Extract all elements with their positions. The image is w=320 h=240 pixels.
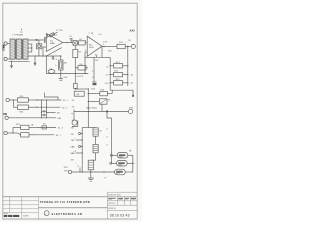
branch stubs with labels [79,133,81,135]
wire [7,43,10,45]
op-amp U1 inverting input wire [45,39,47,41]
node junction [36,39,38,41]
right table [107,192,137,219]
capacitor C6 [92,81,97,83]
divider left bus [109,57,111,90]
wire right vertical [130,155,133,172]
ladder verticals [40,100,42,118]
resistor group B: terminal [4,131,7,134]
divider line [38,207,107,209]
relay K2 [93,144,98,152]
op-amp U1 non-inverting input wire [43,46,46,48]
resistor R16 [88,93,100,95]
resistor R10 vertical [74,74,76,84]
title block top line [3,196,108,198]
terminal out mid [128,109,132,113]
wire L bottom of divider [110,90,133,96]
op-amp U2 lower input wire [85,51,87,53]
regulator VR3 [115,169,126,175]
resistor R19 [17,98,28,102]
capacitor C4 [48,70,55,74]
op-amp U2 output [102,46,117,48]
tick on rail [96,56,98,58]
bus line S4 [37,134,54,136]
resistor R13 [114,64,123,68]
border frame [3,3,137,219]
wire vertical node A [45,56,47,74]
rail mid [46,73,88,75]
bus jog [82,127,88,129]
resistor R21 [12,127,14,133]
op-amp U1 [46,34,63,52]
op-amp U1 output wire [63,42,73,44]
regulator VR2 [117,160,128,166]
wire L down [107,112,112,164]
zener box D3 [59,60,63,70]
op-amp U2 [87,36,102,56]
revision table [3,197,39,219]
wire top rail from transformer [28,39,44,41]
feedback diagonal lower [46,48,62,56]
capacitor C1 [44,37,46,43]
logo [44,211,49,216]
paper grain [0,0,1,1]
resistor R14 [114,72,123,76]
tap rail to node A [28,55,61,57]
terminal input 2 [4,57,7,60]
step wire top [44,93,58,100]
relay K3 [88,160,93,170]
capacitor C8 to ground [60,74,62,79]
capacitor ticks C14 [41,114,43,116]
feedback wire U2 [101,46,103,57]
resistor R20 [12,100,14,107]
bus vertical lower [81,128,83,172]
transformer TR windings [10,39,28,59]
terminal bottom left [68,170,71,173]
resistor R9 vertical [73,49,78,57]
trimmer box R2 [36,44,41,49]
bus line S2 [37,106,61,108]
feedback resistor diagonal [45,32,57,38]
terminal line y=111.5 [74,111,128,113]
ground arrow [34,63,37,67]
wire to chassis arrow [34,56,36,63]
resistor R5 [79,41,86,45]
capacitor ticks C13 [41,110,43,112]
rail to bus [75,88,88,90]
transistor Q1 [73,112,75,121]
diode box D4 [73,41,77,46]
ground [90,172,92,178]
relay K1 [93,128,98,136]
divider right bus [127,47,129,87]
output terminal [131,44,135,48]
bottom rail [72,171,115,173]
ground arrow left [11,61,13,65]
potentiometer RP [88,101,99,103]
wire pot to terminal line [101,104,103,111]
resistor R11 [117,44,125,48]
resistor R6 mid [78,66,86,70]
terminal input 1 [4,42,7,45]
capacitor C3 ticks [51,56,53,60]
node dots divider [110,65,111,66]
bus line S3 [37,126,56,128]
resistor R15 [114,81,123,85]
transformer taps [28,43,32,45]
bus line S1 [37,99,62,101]
resistor group A top: terminal [6,98,9,101]
transformer bottom rail [9,60,30,62]
resistor R22 [21,133,29,137]
row wire [47,111,56,113]
regulator VR1 [117,152,128,158]
rail +15 to divider [85,56,111,58]
margin mark [3,45,5,52]
revision table dark text [4,215,19,217]
+5V label box [74,91,84,96]
bus vertical upper [87,89,89,128]
power pin wire [93,57,95,82]
